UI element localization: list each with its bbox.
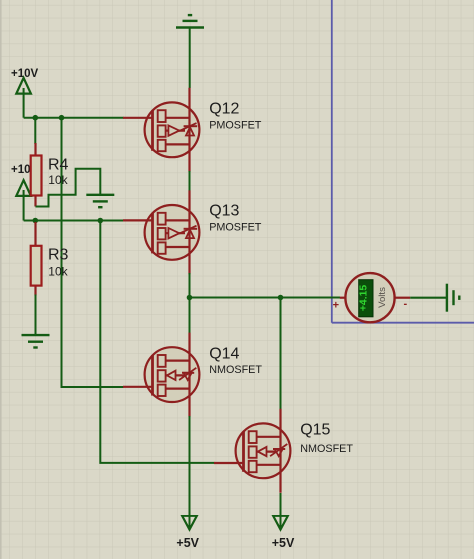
transistor Q14 NMOSFET [123, 333, 199, 417]
wire: rail2 down to Q15 gate [100, 221, 214, 463]
svg-text:Q13: Q13 [209, 202, 239, 219]
svg-text:+4.15: +4.15 [358, 285, 369, 312]
junction dot node rail1/Q14gate [59, 115, 65, 121]
wire: branch down to Q15 drain [280, 298, 282, 411]
svg-text:10k: 10k [48, 264, 68, 278]
wire: rail to R4 top [34, 118, 36, 144]
voltmeter display [359, 280, 373, 317]
resistor R4 leads [34, 143, 36, 207]
wire: +10V stem [23, 88, 25, 118]
wire: Q15 source to +5V [280, 493, 282, 527]
wire: Q12 source to Q13 drain [189, 171, 191, 191]
svg-text:Q12: Q12 [209, 100, 239, 117]
svg-text:NMOSFET: NMOSFET [300, 443, 353, 455]
svg-text:Volts: Volts [377, 287, 388, 308]
svg-text:NMOSFET: NMOSFET [209, 364, 262, 376]
wire: top ground stem [189, 28, 191, 89]
svg-text:+5V: +5V [176, 536, 199, 550]
wire: second +10V stem [23, 190, 25, 221]
wire: Q13 source down to output node [189, 273, 191, 298]
junction dot Q15 branch [278, 295, 284, 301]
voltmeter left pin [340, 297, 345, 299]
wire: +10V rail to Q12 gate [24, 117, 124, 119]
transistor Q13 PMOSFET [123, 190, 199, 274]
sheet border (blue) horizontal [332, 322, 474, 324]
power +5V arrow (left, pointing down) [182, 516, 197, 530]
power +10V arrow second [16, 180, 31, 196]
junction dot node rail2/R3 [33, 218, 39, 224]
resistor R3 body [31, 246, 42, 286]
wire: R3 bottom to ground [35, 295, 37, 336]
voltmeter right pin [396, 297, 411, 299]
power +10V arrow top [16, 78, 31, 94]
wire: output node down to Q14 drain [189, 298, 191, 334]
ground (top, inverted) [176, 15, 204, 27]
ground (R4 divider) [86, 195, 114, 207]
resistor R3 leads [34, 222, 36, 296]
power +5V arrow (right, pointing down) [273, 516, 288, 530]
svg-text:-: - [404, 298, 408, 310]
svg-text:+5V: +5V [272, 536, 295, 550]
junction dot node rail2/Q15gate [98, 218, 104, 224]
svg-text:+: + [333, 300, 339, 312]
wire: voltmeter negative to right ground [410, 297, 447, 299]
svg-text:PMOSFET: PMOSFET [209, 222, 262, 234]
window left edge [0, 0, 2, 559]
svg-text:R4: R4 [48, 157, 69, 174]
ground (right, rotated) [447, 284, 459, 312]
wire: R4 bottom to ground step [36, 169, 101, 207]
voltmeter body [345, 273, 394, 322]
wire: Q14 source to +5V [189, 416, 191, 527]
wire: rail2 to Q13 gate [24, 220, 124, 222]
transistor Q12 PMOSFET [123, 88, 199, 172]
junction dot output node [187, 295, 193, 301]
svg-text:PMOSFET: PMOSFET [209, 120, 262, 132]
wire: rail down to Q14 gate [62, 118, 124, 387]
junction dot node rail1/R4 [33, 115, 39, 121]
resistor R4 body [31, 156, 42, 196]
svg-text:10k: 10k [48, 173, 68, 187]
svg-text:Q15: Q15 [300, 422, 330, 439]
svg-text:Q14: Q14 [209, 346, 239, 363]
wire: output node to voltmeter [190, 297, 341, 299]
sheet border (blue) vertical [331, 0, 333, 323]
transistor Q15 NMOSFET [214, 409, 290, 493]
ground (below R3) [22, 335, 50, 347]
svg-text:R3: R3 [48, 246, 69, 263]
